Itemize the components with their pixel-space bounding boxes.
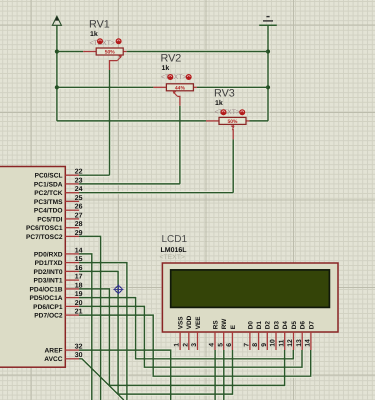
LCD pin 1 VSS stub [179,332,181,350]
MCU pin 27 PC5/TDI stub [65,218,79,220]
svg-text:E: E [230,324,237,329]
svg-text:24: 24 [75,186,83,193]
wire LCD RS pin4 down [214,350,216,400]
svg-text:VEE: VEE [195,316,202,330]
wire GND rail vertical [267,25,269,121]
svg-text:<TEXT>: <TEXT> [215,109,240,116]
wire RV3 wiper down [232,139,234,192]
MCU pin 18 PD4/OC1B stub [65,288,79,290]
svg-text:D0: D0 [247,321,254,330]
RV1 pin1 lead [83,51,96,53]
svg-text:PC1/SDA: PC1/SDA [34,181,63,188]
wire from RV1 pin2 (right) [127,51,268,53]
RV1 wiper arrow [117,55,122,61]
svg-text:9: 9 [261,343,268,347]
wire from RV3 pin2 (right) [250,120,269,122]
RV1 wiper lead [110,61,118,70]
LCD pin 12 D5 stub [293,332,295,350]
junction VCC-RV2 [55,85,59,89]
wire RV1 wiper down [109,70,111,175]
MCU U1 body (cropped at left edge) [0,167,65,368]
wire RV3 wiper to MCU [79,192,233,194]
MCU pin 29 PC7/TOSC2 stub [65,235,79,237]
RV3 wiper arrow [231,125,235,130]
svg-text:6: 6 [226,343,233,347]
RV2 pin1 lead [153,86,166,88]
MCU pin 21 PD7/OC2 stub [65,314,79,316]
svg-text:LCD1: LCD1 [162,234,188,245]
MCU pin 30 AVCC stub [65,358,79,360]
svg-text:D1: D1 [256,321,263,330]
LCD pin 9 D2 stub [266,332,268,350]
svg-text:13: 13 [296,339,303,347]
wire VCC rail vertical [56,25,58,121]
RV1 pin2 lead [123,51,127,53]
svg-text:PD6/ICP1: PD6/ICP1 [33,304,63,311]
svg-text:D6: D6 [300,321,307,330]
LCD pin 2 VDD stub [188,332,190,350]
svg-text:PD5/OC1A: PD5/OC1A [30,295,63,302]
RV3 pin1 lead [206,120,219,122]
svg-text:PC4/TDO: PC4/TDO [34,208,63,215]
RV2 pin2 lead [193,86,197,88]
LCD pin 11 D4 stub [284,332,286,350]
RV3 wiper lead [231,130,234,140]
RV2 knob button right [186,74,192,80]
RV3 knob button right [239,109,245,115]
LCD pin 14 D7 stub [310,332,312,350]
LCD pin 8 D1 stub [258,332,260,350]
LCD pin 3 VEE stub [197,332,199,350]
RV3 pin2 lead [246,120,250,122]
svg-text:D2: D2 [265,321,272,330]
MCU pin 15 PD1/TXD stub [65,262,79,264]
svg-text:RV2: RV2 [161,53,182,65]
origin marker (blue diamond) [113,284,123,294]
junction VCC-RV1 [55,49,59,53]
MCU pin 14 PD0/RXD stub [65,253,79,255]
MCU pin 23 PC1/SDA stub [65,183,79,185]
MCU pin 19 PD5/OC1A stub [65,297,79,299]
svg-text:2: 2 [182,343,189,347]
svg-text:<TEXT>: <TEXT> [161,74,186,81]
LCD pin 10 D3 stub [275,332,277,350]
svg-text:12: 12 [287,339,294,347]
RV2 knob button left [167,74,173,80]
svg-text:AREF: AREF [45,348,63,355]
RV3 knob button left [221,109,227,115]
svg-text:RS: RS [212,320,219,330]
RV1 knob button right [116,38,122,44]
wire PD2/INT0 pin16 to LCD E [79,271,233,394]
MCU pin 28 PC6/TOSC1 stub [65,227,79,229]
LCD pin 7 D0 stub [249,332,251,350]
svg-text:VDD: VDD [186,315,193,329]
wire LCD RW pin5 down [223,350,225,400]
svg-text:26: 26 [75,204,83,211]
svg-text:RV1: RV1 [89,19,110,31]
svg-text:1: 1 [174,343,181,347]
wire PD1/TXD pin15 down [79,263,127,400]
wire to RV2 pin1 (left) [57,86,153,88]
svg-text:RW: RW [221,318,228,329]
svg-text:RV3: RV3 [214,88,235,100]
svg-text:8: 8 [252,343,259,347]
svg-text:PD7/OC2: PD7/OC2 [34,313,63,320]
RV2 wiper lead [178,96,180,105]
MCU pin 20 PD6/ICP1 stub [65,305,79,307]
svg-text:D3: D3 [273,321,280,330]
svg-text:44%: 44% [175,86,186,92]
svg-text:1k: 1k [162,64,170,72]
RV3 body [219,117,246,125]
svg-text:D4: D4 [282,321,289,330]
MCU pin 22 PC0/SCL stub [65,174,79,176]
svg-text:<TEXT>: <TEXT> [160,254,185,261]
wire to RV1 pin1 (left) [57,51,83,53]
LCD pin 6 E stub [231,332,233,350]
svg-text:4: 4 [209,343,216,347]
svg-text:PC6/TOSC1: PC6/TOSC1 [26,225,63,232]
svg-text:D7: D7 [308,321,315,330]
wire AREF pin32 down [79,350,171,400]
LCD pin 4 RS stub [214,332,216,350]
wire PD4/OC1B pin18 to LCD D4 [79,289,285,386]
MCU pin 26 PC4/TDO stub [65,209,79,211]
svg-text:23: 23 [75,177,83,184]
LCD1 body [162,263,338,332]
svg-text:PD4/OC1B: PD4/OC1B [30,286,63,293]
svg-text:PC3/TMS: PC3/TMS [34,199,63,206]
wire RV1 wiper to MCU [79,174,110,176]
LCD pin 5 RW stub [223,332,225,350]
RV1 body [96,48,123,56]
svg-text:VSS: VSS [178,316,185,330]
svg-text:25: 25 [75,195,83,202]
svg-text:27: 27 [75,212,83,219]
wire PD6/ICP1 pin20 to LCD D6 [79,306,302,367]
MCU pin 24 PC2/TCK stub [65,192,79,194]
ground symbol [259,17,277,26]
svg-text:10: 10 [270,339,277,347]
wire RV2 wiper to MCU [79,183,180,185]
MCU pin 16 PD2/INT0 stub [65,270,79,272]
wire to RV3 pin1 (left) [57,120,206,122]
wire AVCC pin30 diagonal [79,359,124,400]
svg-text:1k: 1k [215,99,223,107]
wire PC7/TOSC2 pin29 down [79,236,101,400]
MCU pin 17 PD3/INT1 stub [65,279,79,281]
svg-text:PC0/SCL: PC0/SCL [35,173,63,180]
LCD1 screen [171,270,330,308]
wire RV2 wiper down [179,106,181,184]
wire PD5/OC1A pin19 to LCD D5 [79,298,293,359]
svg-text:PD3/INT1: PD3/INT1 [34,278,63,285]
RV2 wiper arrow [172,91,177,97]
svg-text:PD0/RXD: PD0/RXD [34,251,63,258]
RV2 body [166,84,193,92]
svg-text:14: 14 [305,339,312,347]
junction GND-RV1 [266,49,270,53]
svg-text:PD2/INT0: PD2/INT0 [34,269,63,276]
wire PD7/OC2 pin21 to LCD D7 [79,315,311,376]
svg-text:PD1/TXD: PD1/TXD [35,260,63,267]
svg-text:LM016L: LM016L [161,247,188,254]
svg-text:AVCC: AVCC [44,356,62,363]
svg-text:PC7/TOSC2: PC7/TOSC2 [26,234,63,241]
svg-text:50%: 50% [227,119,238,125]
LCD pin 13 D6 stub [301,332,303,350]
MCU pin 32 AREF stub [65,349,79,351]
svg-text:11: 11 [278,339,285,346]
svg-text:3: 3 [191,343,198,347]
wire from RV2 pin2 (right) [197,86,268,88]
svg-text:D5: D5 [291,321,298,330]
power symbol VCC arrow [52,16,61,25]
RV1 knob button left [97,38,103,44]
svg-text:28: 28 [75,221,83,228]
svg-text:1k: 1k [90,30,98,38]
svg-text:50%: 50% [105,50,116,56]
svg-text:PC2/TCK: PC2/TCK [34,190,62,197]
svg-text:5: 5 [217,343,224,347]
svg-text:7: 7 [244,343,251,347]
svg-text:17: 17 [75,274,83,281]
MCU pin 25 PC3/TMS stub [65,200,79,202]
wire PD0/RXD pin14 down [79,254,92,400]
svg-text:22: 22 [75,169,83,176]
svg-text:PC5/TDI: PC5/TDI [37,216,62,223]
junction GND-RV2 [266,85,270,89]
